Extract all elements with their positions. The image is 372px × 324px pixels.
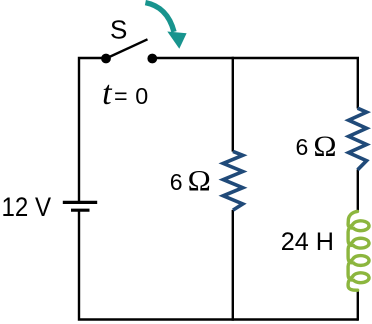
switch S: right terminal dot <box>147 54 157 64</box>
svg-text:12 V: 12 V <box>2 192 52 222</box>
inductor L1 24H coil <box>348 211 369 290</box>
svg-text:24 H: 24 H <box>281 228 334 256</box>
wire: left vertical bottom segment (battery bottom lead) and bottom wire <box>79 211 358 320</box>
svg-text:t = 0: t = 0 <box>102 75 149 112</box>
resistor R2 6ohm (right branch) <box>349 108 367 170</box>
wire: right branch between R2 and L1 <box>357 170 359 212</box>
wire: middle branch bottom lead <box>232 210 234 321</box>
wire: left vertical top segment (battery top lead) <box>79 58 106 201</box>
switch S: left terminal dot <box>101 54 111 64</box>
wire: middle branch top lead <box>232 57 234 152</box>
teal arrow (switch closing direction) <box>145 3 186 49</box>
svg-text:Ω: Ω <box>313 131 336 163</box>
resistor R1 6ohm (middle branch) <box>223 151 243 210</box>
svg-text:6: 6 <box>296 134 309 160</box>
battery 12V: long plate <box>63 201 97 204</box>
wire: right branch bottom lead below inductor <box>357 290 359 321</box>
wire: top wire from switch right terminal to top-right corner down to R2 <box>152 58 357 109</box>
battery 12V: short plate <box>71 209 90 212</box>
svg-text:S: S <box>110 14 127 44</box>
switch S: open blade <box>106 39 148 58</box>
svg-text:6: 6 <box>170 169 183 195</box>
svg-text:Ω: Ω <box>188 166 211 198</box>
